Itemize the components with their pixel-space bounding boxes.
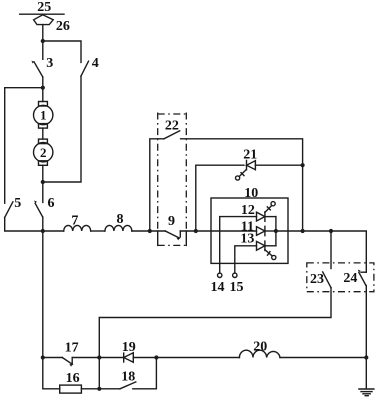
wire node O to switch 18	[99, 388, 120, 390]
inductor 8	[105, 225, 132, 231]
rectifier box 10	[211, 198, 288, 263]
node H junction	[274, 229, 278, 233]
wire node K down to node O	[98, 358, 100, 389]
left rail wire down to switch 5	[4, 88, 6, 204]
node K junction	[97, 355, 101, 359]
wire switch 17 to node K	[72, 357, 99, 359]
wire switch 3 to node B	[42, 77, 44, 88]
svg-text:20: 20	[253, 339, 267, 354]
wire diode 19 to node M	[133, 357, 156, 359]
node M junction	[154, 355, 158, 359]
wire node J to switch 24 branch	[331, 231, 366, 272]
node I junction	[301, 229, 305, 233]
svg-text:23: 23	[310, 272, 324, 287]
svg-text:22: 22	[165, 118, 179, 133]
relay box 23/24 (dash-dot)	[307, 263, 374, 292]
switch 18	[120, 382, 136, 389]
wire node B to motor 1	[42, 88, 44, 102]
diode 12	[257, 202, 276, 222]
motor 2	[34, 139, 53, 165]
relay box 22 (dash-dot)	[158, 113, 187, 115]
wire switch 22 to right rail	[181, 139, 303, 231]
wire switch 24 to ground rail	[365, 286, 367, 389]
terminal 15	[233, 273, 237, 277]
node E junction	[148, 229, 152, 233]
wire switch 4 down to node C	[43, 76, 81, 182]
node N junction	[364, 355, 368, 359]
node D junction	[41, 229, 45, 233]
diode 11	[257, 226, 265, 235]
switch 4	[81, 61, 89, 76]
node A junction	[41, 39, 45, 43]
diode 11 cathode wire to node H	[265, 230, 276, 232]
wire node L down to resistor 16	[43, 358, 60, 389]
horn 26 (pentagon symbol)	[34, 15, 54, 25]
wire node A to switch 4 branch	[43, 41, 81, 62]
inductor 20	[239, 350, 280, 357]
wire node M to inductor 20	[156, 357, 239, 359]
node B junction	[41, 86, 45, 90]
wire inductor 7 to inductor 8	[91, 230, 105, 232]
wire node K to diode 19	[99, 357, 123, 359]
svg-text:13: 13	[240, 231, 254, 246]
wire node C to switch 6	[42, 182, 44, 202]
svg-text:4: 4	[92, 56, 99, 71]
wire inductor 8 to node E	[132, 230, 150, 232]
diode 12 cathode wire	[265, 216, 276, 218]
terminal 14	[218, 273, 222, 277]
wire node J down to switch 23	[330, 231, 332, 269]
ground	[359, 389, 374, 396]
wire node L to switch 17	[43, 357, 63, 359]
wire motor 1 to motor 2	[42, 128, 44, 139]
wire inductor 20 to ground node N	[280, 357, 366, 359]
node G junction	[301, 163, 305, 167]
wire switch 9 to node F	[180, 230, 196, 232]
wire switch 5 to bus	[5, 217, 43, 231]
svg-text:24: 24	[343, 271, 357, 286]
switch 24	[358, 270, 367, 286]
wire motor 2 to node C	[42, 165, 44, 182]
svg-text:9: 9	[168, 214, 175, 229]
diode 13 anode wire	[235, 246, 257, 273]
diode 13 cathode wire	[265, 245, 276, 247]
wire node D down the page	[42, 231, 44, 358]
switch 9	[165, 231, 180, 240]
svg-text:19: 19	[122, 340, 136, 355]
svg-text:16: 16	[66, 371, 80, 386]
svg-text:17: 17	[65, 340, 79, 355]
svg-text:18: 18	[121, 369, 135, 384]
switch 22	[164, 131, 180, 139]
wire node B to left rail	[5, 87, 43, 89]
svg-text:7: 7	[71, 213, 78, 228]
wire node A down to switch 3	[42, 41, 44, 59]
svg-text:5: 5	[14, 196, 21, 211]
wire thyristor 21 to node G	[255, 164, 302, 166]
terminal bar over horn 25	[20, 13, 64, 15]
svg-text:12: 12	[241, 203, 255, 218]
wire node F to rectifier box 10	[196, 230, 257, 232]
svg-text:3: 3	[46, 56, 53, 71]
node J junction	[329, 229, 333, 233]
node F junction	[194, 229, 198, 233]
wire switch 6 to bus node D	[42, 217, 44, 231]
switch 6	[34, 200, 43, 217]
diode 12 anode wire	[220, 217, 257, 273]
svg-text:21: 21	[243, 147, 257, 162]
svg-text:1: 1	[40, 108, 47, 123]
wire switch 23 down and left	[99, 288, 331, 358]
switch 17	[62, 358, 72, 367]
wire bus to inductor 7	[43, 230, 64, 232]
wire resistor 16 to node O	[81, 388, 99, 390]
thyristor 21	[236, 160, 256, 180]
diode 13	[257, 241, 276, 260]
node L junction	[41, 355, 45, 359]
wire node F up to thyristor 21	[196, 165, 244, 231]
svg-text:14: 14	[211, 280, 225, 295]
svg-text:6: 6	[48, 196, 55, 211]
switch 3	[31, 61, 42, 77]
wire switch 18 up to node M	[133, 358, 157, 389]
resistor 16	[60, 385, 82, 393]
wire horn to node A	[42, 25, 44, 41]
wire node I to node J	[303, 230, 331, 232]
svg-text:26: 26	[56, 19, 70, 34]
svg-text:25: 25	[37, 0, 51, 15]
collector wire of diodes	[275, 217, 277, 246]
svg-text:8: 8	[117, 212, 124, 227]
wire box 10 to node I	[276, 230, 303, 232]
node O junction	[97, 387, 101, 391]
svg-text:10: 10	[244, 186, 258, 201]
node C junction	[41, 180, 45, 184]
wire node E up to switch 22	[150, 139, 164, 231]
wire bus node E to switch 9	[150, 230, 166, 232]
inductor 7	[64, 225, 91, 231]
diode 19	[124, 353, 134, 362]
switch 23	[323, 272, 331, 288]
svg-text:15: 15	[230, 280, 244, 295]
motor 1	[34, 102, 53, 129]
switch 5	[5, 202, 13, 218]
svg-text:2: 2	[40, 145, 47, 160]
relay box 22 lower solid sides	[157, 231, 159, 245]
